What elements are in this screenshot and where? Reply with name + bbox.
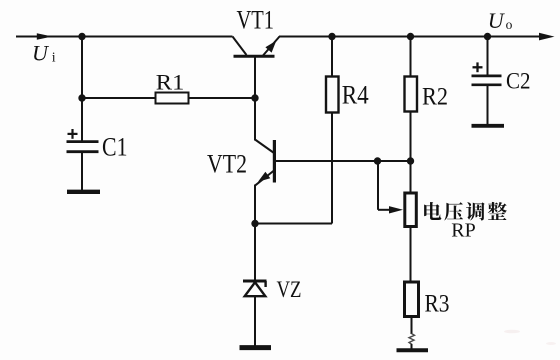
svg-text:C2: C2 bbox=[506, 69, 531, 94]
wire: C1 bottom lead bbox=[81, 153, 83, 192]
wire: RP wiper arm horizontal bbox=[378, 209, 391, 211]
wire: RP bottom to R3 top bbox=[410, 227, 412, 283]
resistor R4 bbox=[326, 77, 339, 113]
resistor R3 bbox=[405, 282, 419, 317]
junction: R1/VT1 base node bbox=[251, 94, 258, 101]
wire: VT2 emitter node to R4 branch bbox=[255, 223, 332, 225]
resistor R1 bbox=[156, 93, 189, 104]
wire: divider node down to RP wiper arm bbox=[377, 161, 379, 210]
terminal bar below C2 bbox=[472, 124, 505, 128]
svg-text:VT1: VT1 bbox=[237, 6, 275, 35]
terminal bar below C1 bbox=[67, 190, 100, 194]
input arrow on Ui wire bbox=[37, 33, 53, 39]
wire: R2 bottom lead to RP top bbox=[410, 112, 412, 194]
svg-text:U: U bbox=[32, 40, 50, 65]
junction: input node on top rail bbox=[78, 33, 85, 40]
capacitor C2 bbox=[472, 76, 502, 85]
wire: C2 top lead bbox=[487, 37, 489, 76]
junction: R2 bottom/VT2 base node bbox=[407, 157, 414, 164]
C1 polarity plus bbox=[68, 129, 78, 139]
junction: R4 top on rail bbox=[328, 33, 335, 40]
wire: VZ anode to ground bbox=[254, 296, 256, 346]
svg-text:VZ: VZ bbox=[277, 277, 302, 302]
ground bar below VZ bbox=[240, 345, 272, 350]
wire: input node down to C1 bbox=[81, 37, 83, 142]
svg-text:R4: R4 bbox=[342, 81, 369, 110]
svg-text:U: U bbox=[488, 8, 506, 33]
wire: R1 right to VT1 base node bbox=[189, 97, 256, 99]
junction: R2 top on rail bbox=[407, 33, 414, 40]
svg-text:o: o bbox=[506, 17, 513, 32]
wire: VT2 emitter down to VZ bbox=[254, 185, 256, 280]
svg-text:R1: R1 bbox=[156, 69, 185, 94]
junction: VT2 emitter/R4 node bbox=[251, 220, 258, 227]
wire: node to VT2 collector bbox=[254, 98, 256, 141]
svg-text:R2: R2 bbox=[422, 84, 448, 111]
junction: C1/R1 node bbox=[78, 94, 85, 101]
zener diode VZ bbox=[243, 281, 267, 296]
label 整 bbox=[488, 202, 507, 220]
resistor R2 bbox=[405, 77, 418, 112]
ground bar below R3 bbox=[397, 348, 429, 352]
label 调 bbox=[466, 202, 485, 220]
svg-text:R3: R3 bbox=[425, 290, 450, 317]
wire: C2 bottom lead bbox=[487, 86, 489, 125]
wire: R4 top lead bbox=[331, 37, 333, 77]
C2 polarity plus bbox=[473, 62, 483, 72]
potentiometer RP body bbox=[405, 193, 417, 227]
potentiometer RP wiper arrow bbox=[389, 206, 403, 213]
wire: R4 bottom lead down to emitter branch bbox=[331, 113, 333, 224]
wire: input node to R1 left bbox=[82, 97, 156, 99]
transistor VT1 bbox=[233, 37, 280, 57]
svg-text:C1: C1 bbox=[102, 132, 128, 161]
wire: input to VT1 collector (top rail left) bbox=[16, 36, 233, 38]
wire: VT2 base to divider node bbox=[276, 160, 411, 162]
transistor VT2 bbox=[255, 140, 274, 186]
junction: C2 top on rail bbox=[484, 33, 491, 40]
squiggle above R3 ground bbox=[409, 334, 415, 345]
junction: wiper branch node bbox=[374, 157, 381, 164]
label 压 bbox=[444, 202, 463, 220]
faint watermark smudge bbox=[504, 330, 556, 345]
wire: R2 top lead bbox=[410, 37, 412, 77]
svg-text:VT2: VT2 bbox=[207, 149, 247, 178]
output arrow on Uo wire bbox=[539, 33, 555, 41]
capacitor C1 bbox=[67, 142, 99, 152]
wire: VT1 emitter to output (top rail right) bbox=[279, 36, 539, 38]
wire: VT1 base lead down bbox=[254, 56, 256, 98]
wire: R3 bottom lead bbox=[411, 317, 413, 335]
wire: stub to R3 ground bar bbox=[411, 344, 413, 349]
label 电 (voltage-adjust) bbox=[424, 202, 441, 220]
svg-text:RP: RP bbox=[451, 220, 476, 242]
svg-text:i: i bbox=[52, 50, 56, 65]
